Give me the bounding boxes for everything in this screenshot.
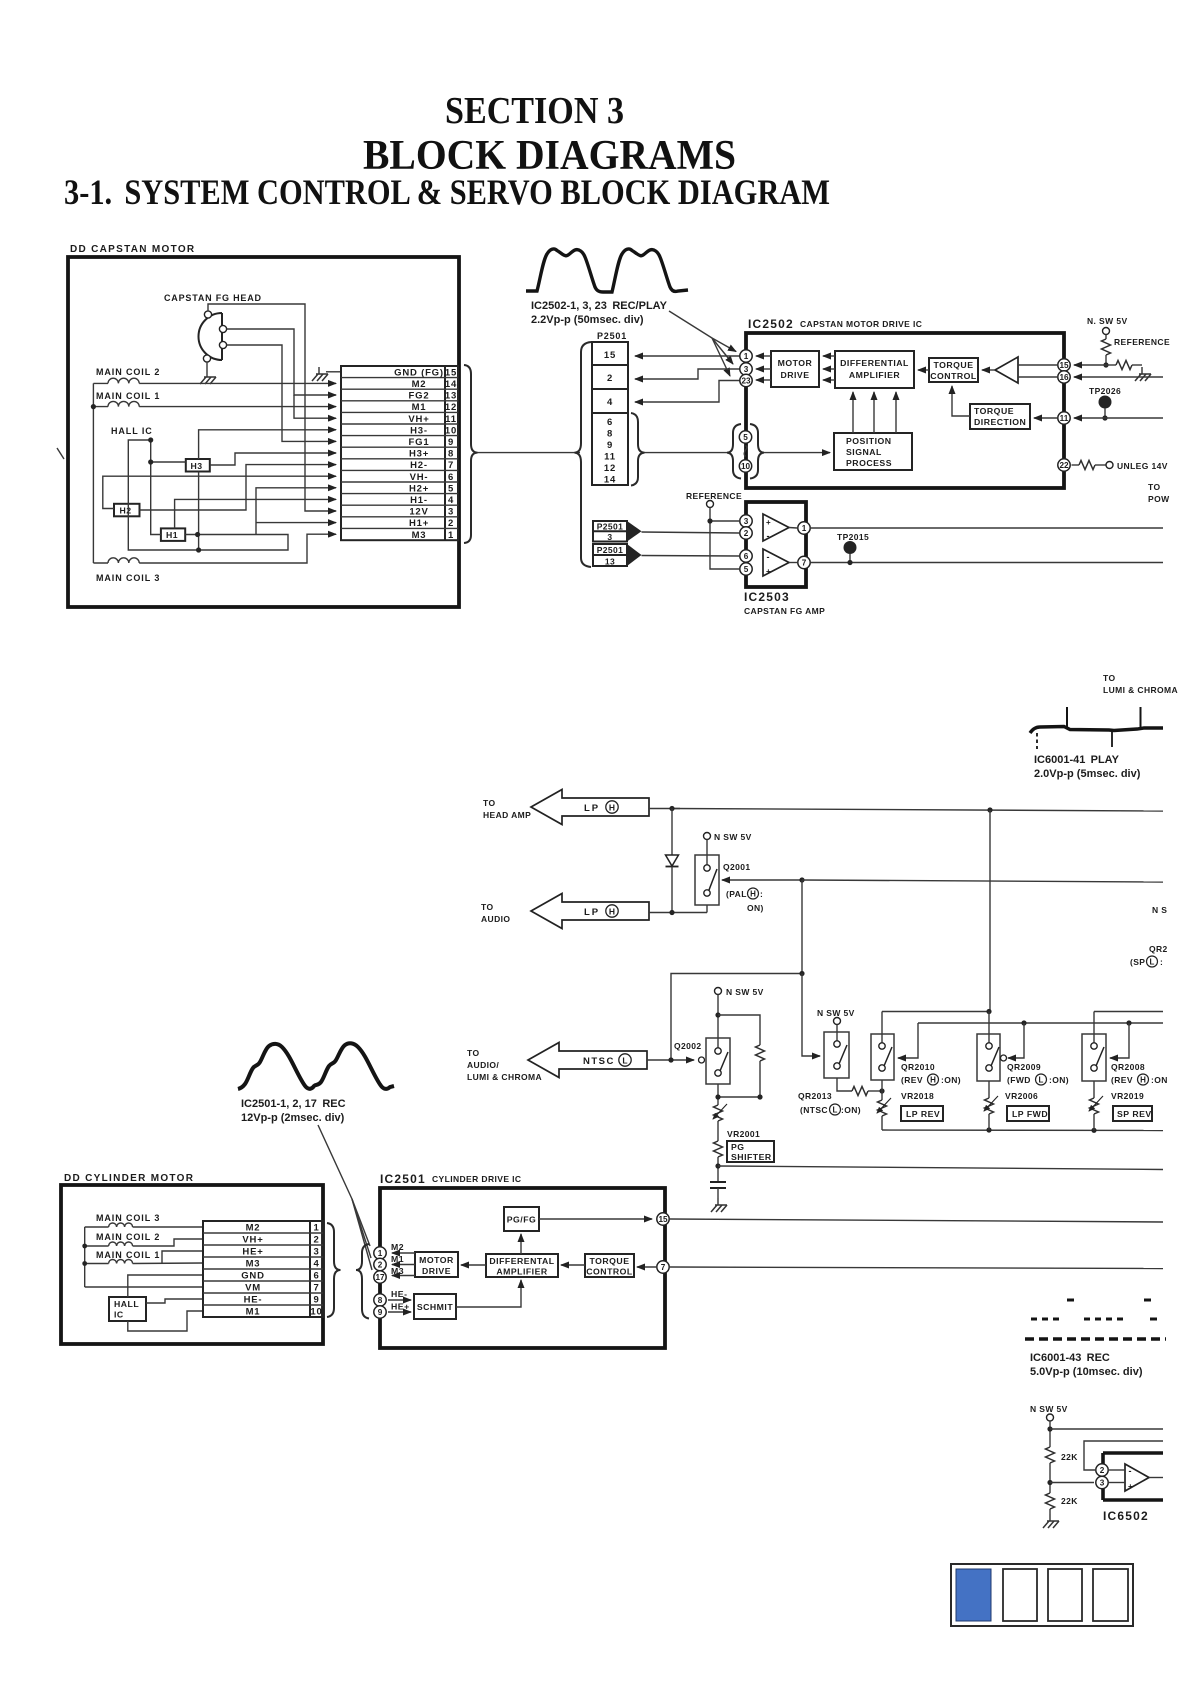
svg-text:VH+: VH+ [408,414,429,425]
svg-text:3: 3 [744,365,749,374]
svg-text:12: 12 [445,402,457,413]
svg-text:+: + [766,567,771,576]
wire pin 15 out [670,1219,1163,1222]
wire QR2010/QR2009 top bus [882,1011,989,1013]
signal arrow TO HEAD AMP [483,790,649,825]
svg-text:-: - [1129,1466,1132,1476]
wire Q2001 branch down-left [671,880,802,1060]
wire QR2008 top bus [1094,1011,1163,1013]
wire pin 11 to torque direction [1034,417,1057,419]
connector table DD capstan motor [341,366,458,541]
wires pins to amplifier [1109,1469,1125,1471]
block DIFFERENTIAL AMPLIFIER [835,351,914,388]
pin 6 IC2503 [740,550,752,562]
adjust label LP REV [901,1106,943,1121]
svg-text:3: 3 [448,507,454,518]
svg-text:Q2001: Q2001 [723,862,751,872]
svg-text:IC2501: IC2501 [380,1172,426,1186]
svg-text:VM: VM [245,1283,261,1294]
wires motor drive outputs to pins 1,3,23 [756,355,771,357]
svg-text:MOTOR: MOTOR [419,1255,454,1265]
wire head-amp bus [672,809,1163,812]
transistor switch QR2010 [871,1012,894,1081]
svg-text:16: 16 [1059,373,1069,382]
svg-text:H3+: H3+ [409,449,429,460]
svg-text:4: 4 [607,397,613,408]
svg-text:3: 3 [313,1247,319,1258]
amplifier triangle [995,357,1018,383]
svg-text:HE+: HE+ [391,1302,410,1312]
divider resistor 22K lower [1043,1493,1078,1528]
svg-text:M1: M1 [412,402,427,413]
net N SW 5V [704,832,752,842]
bottom bus [882,1129,1163,1132]
svg-text:AUDIO/: AUDIO/ [467,1060,499,1070]
svg-text:5: 5 [743,433,748,442]
svg-text:2: 2 [607,373,613,384]
wire branch to VH+ pin [294,395,336,418]
svg-text::: : [1160,957,1163,967]
svg-text:11: 11 [445,414,457,425]
svg-text:FG1: FG1 [409,437,430,448]
wire NTSC to Q2002 [647,1059,694,1061]
wire H1 top pin to H1- pin [175,499,336,528]
block MOTOR DRIVE [771,351,819,387]
svg-text:1: 1 [744,352,749,361]
svg-text:TO: TO [481,902,493,912]
svg-text:15: 15 [445,367,457,378]
svg-text:TP2026: TP2026 [1089,386,1121,396]
wire torque control to differential amplifier [918,369,929,371]
svg-text:HE+: HE+ [242,1247,263,1258]
svg-text:2.0Vp-p (5msec. div): 2.0Vp-p (5msec. div) [1034,768,1141,780]
svg-text:DRIVE: DRIVE [422,1266,451,1276]
svg-text:H: H [609,906,615,916]
svg-text:IC6001-41 PLAY: IC6001-41 PLAY [1034,754,1120,766]
main coil 3 [85,1213,161,1227]
svg-text:DD CAPSTAN MOTOR: DD CAPSTAN MOTOR [70,244,195,255]
svg-text:H: H [930,1076,936,1085]
svg-text:MAIN COIL 2: MAIN COIL 2 [96,1232,160,1242]
block TORQUE CONTROL [929,358,978,382]
svg-text:IC2502-1, 3, 23 REC/PLAY: IC2502-1, 3, 23 REC/PLAY [531,300,668,312]
wire hall bus riser [151,440,161,535]
wire to feedback bus [1050,1428,1163,1430]
svg-text:VR2018: VR2018 [901,1091,934,1101]
wire FG head terminal 2 to FG2 pin [227,329,337,395]
svg-text:H2: H2 [120,506,132,516]
svg-text:M2: M2 [412,379,427,390]
wire PG/FG to pin 15 [539,1218,652,1220]
svg-text:REFERENCE: REFERENCE [1114,337,1170,347]
svg-text:LP REV: LP REV [906,1109,940,1119]
svg-text:MAIN COIL 2: MAIN COIL 2 [96,367,160,377]
svg-text:MAIN COIL 1: MAIN COIL 1 [96,1250,160,1260]
svg-text:UNLEG 14V: UNLEG 14V [1117,461,1168,471]
svg-text:(NTSC: (NTSC [800,1105,828,1115]
oscilloscope waveform IC2502 REC/PLAY [526,249,688,292]
net N SW 5V [1030,1404,1068,1421]
svg-text:DIFFERENTAL: DIFFERENTAL [489,1256,554,1266]
adjust label SP REV [1113,1106,1152,1121]
wire control into Q2001 [722,879,802,881]
brace left of P2501 [575,342,592,567]
main coil 1 [93,391,160,407]
svg-text:VH-: VH- [410,472,429,483]
svg-text:11: 11 [1060,414,1069,423]
wire vertical to QR bank [989,810,991,1012]
wire H3 top pin to H3- pin [199,430,336,459]
wire pin 11 [1074,417,1163,419]
svg-text:M3: M3 [391,1266,404,1276]
pin 7 IC2503 [798,556,810,568]
net N SW 5V at QR2013 [817,1008,855,1044]
svg-text:11: 11 [604,452,616,463]
svg-text:10: 10 [741,462,751,471]
test point TP2015 [837,532,869,565]
svg-text:CONTROL: CONTROL [586,1267,633,1277]
main coil 1 [85,1250,161,1264]
wire hall bus to H3 left pin [151,461,186,463]
svg-text:LP FWD: LP FWD [1012,1109,1048,1119]
wire pin 7 out [670,1267,1163,1269]
svg-text:POW: POW [1148,494,1170,504]
svg-text:12V: 12V [409,507,428,518]
oscilloscope waveform IC6001-41 PLAY [1030,707,1163,749]
hall IC block [109,1297,146,1321]
wire branch to HE+ [162,1251,203,1264]
pin 10 IC2502 [739,460,751,472]
svg-text:6: 6 [313,1271,319,1282]
svg-text:GND (FG): GND (FG) [394,367,444,378]
svg-text::ON: :ON [1151,1075,1168,1085]
svg-text:P2501: P2501 [597,331,627,341]
svg-text:QR2009: QR2009 [1007,1062,1041,1072]
svg-text:LUMI & CHROMA: LUMI & CHROMA [467,1072,542,1082]
wire into pin 15 [1074,364,1106,366]
svg-text:22K: 22K [1061,1496,1078,1506]
pointer lines to IC2501 pins [318,1125,372,1270]
wire reference to op-amp + inputs [710,508,739,570]
block TORQUE DIRECTION [970,404,1030,429]
svg-text:HALL: HALL [114,1299,139,1309]
svg-text:MOTOR: MOTOR [778,358,813,368]
svg-text:PROCESS: PROCESS [846,458,892,468]
pin 1 IC2501 [374,1247,386,1259]
svg-text:L: L [1039,1076,1044,1085]
svg-text:15: 15 [604,350,616,361]
pin 22 IC2502 [1058,459,1070,471]
svg-text:AUDIO: AUDIO [481,914,510,924]
svg-text:3: 3 [744,517,749,526]
svg-text:TO: TO [467,1048,479,1058]
svg-text::ON): :ON) [941,1075,961,1085]
svg-text:SHIFTER: SHIFTER [731,1152,772,1162]
transistor switch QR2013 [824,1032,849,1078]
svg-text:QR2013: QR2013 [798,1091,832,1101]
main coil 2 [93,367,160,383]
transistor switch QR2008 [1082,1012,1106,1082]
svg-text:9: 9 [607,440,613,451]
svg-text:N SW 5V: N SW 5V [726,987,764,997]
svg-text:P2501: P2501 [597,522,624,532]
wire control into QR2009 [1001,1023,1025,1061]
svg-text:8: 8 [607,429,613,440]
svg-text:LUMI & CHROMA: LUMI & CHROMA [1103,685,1178,695]
svg-text:7: 7 [661,1263,666,1272]
pin 8 IC2501 [374,1294,386,1306]
transistor switch QR2009 [977,1012,1000,1082]
wire main coil 3 to M3 pin [139,534,336,563]
svg-text:7: 7 [802,559,807,568]
svg-text:6: 6 [448,472,454,483]
wire P2501 group to pin5-10 brace [645,452,728,454]
pin 1 IC2502 [740,350,752,362]
wire arrow to bus [649,808,680,810]
hall IC bus frame [128,440,288,550]
nav square 2 [1003,1569,1037,1621]
svg-text:+: + [766,518,771,527]
svg-text:2: 2 [744,529,749,538]
svg-text:TO: TO [1103,673,1115,683]
svg-text:DIFFERENTIAL: DIFFERENTIAL [840,358,909,368]
net N SW 5V [715,987,764,997]
svg-text:TO: TO [1148,482,1160,492]
svg-text:4: 4 [313,1259,319,1270]
svg-text:5: 5 [744,565,749,574]
svg-text:H2+: H2+ [409,483,429,494]
svg-text:DRIVE: DRIVE [780,370,809,380]
svg-text:IC2502: IC2502 [748,317,794,331]
wires motor drive to pins 1,2,17 [392,1252,415,1254]
resistor below VR2001 [714,1141,723,1182]
svg-text:PG: PG [731,1142,745,1152]
wire P2501-2 from IC2502 pin 3 [635,369,740,379]
op-amp A [763,514,797,541]
amplifier triangle [1125,1464,1149,1491]
pin 15 IC2501 [657,1213,669,1225]
svg-text:N SW 5V: N SW 5V [1030,1404,1068,1414]
svg-text:ON): ON) [747,903,764,913]
svg-text:H3-: H3- [410,425,428,436]
svg-text:DIRECTION: DIRECTION [974,417,1026,427]
connector P2501 [592,331,628,486]
svg-text:N SW 5V: N SW 5V [714,832,752,842]
pin 5 IC2502 [739,431,751,443]
svg-text:QR2010: QR2010 [901,1062,935,1072]
svg-text:8: 8 [378,1296,383,1305]
svg-text:NTSC: NTSC [583,1056,615,1067]
svg-text:H2-: H2- [410,460,428,471]
wire main coil 2 to M2 pin [139,382,336,384]
wire control into QR2010 [898,1023,918,1058]
svg-text:9: 9 [313,1295,319,1306]
svg-text:12: 12 [604,463,616,474]
svg-text:HALL IC: HALL IC [111,426,153,436]
signal arrow TO AUDIO [481,894,649,929]
wire main coil 1 to M1 pin [139,406,336,408]
svg-text:VR2001: VR2001 [727,1129,760,1139]
svg-text:POSITION: POSITION [846,436,892,446]
ground [711,1198,727,1212]
junction hall bus [148,437,153,442]
wire P2501-13 to pin 6 [642,555,740,558]
wire hall right to HE- [146,1299,203,1303]
svg-text:3: 3 [607,532,612,542]
net REFERENCE [686,491,742,508]
main coil 3 [93,558,160,583]
pin 1 IC2503 [798,522,810,534]
svg-text:CAPSTAN FG AMP: CAPSTAN FG AMP [744,606,825,616]
resistor to reference [1102,335,1111,366]
svg-text:12Vp-p (2msec. div): 12Vp-p (2msec. div) [241,1112,345,1124]
wire FG head terminal 3 to FG1 pin [227,345,337,441]
variable resistor VR2019 [1089,1081,1103,1130]
block POSITION SIGNAL PROCESS [834,433,912,470]
pin 17 IC2501 [374,1271,386,1283]
pin 3 IC6502 [1096,1476,1108,1488]
pull-up resistor branch [715,1012,764,1097]
svg-text:TORQUE: TORQUE [933,360,973,370]
svg-text:22K: 22K [1061,1452,1078,1462]
wire pin 1 output [811,527,1163,529]
wire down to QR2013 [802,974,820,1057]
svg-text:DD CYLINDER MOTOR: DD CYLINDER MOTOR [64,1173,194,1184]
junction coil common [91,404,96,409]
wire pin 2 feedback loop [1084,1441,1163,1470]
brace right of P2501 group pins [631,413,645,486]
svg-text:2: 2 [313,1235,319,1246]
pin 11 IC2502 [1058,412,1070,424]
op-amp B [763,549,797,576]
svg-text:M2: M2 [246,1223,261,1234]
svg-text:HE-: HE- [244,1295,263,1306]
svg-text:QR2008: QR2008 [1111,1062,1145,1072]
svg-text:(FWD: (FWD [1007,1075,1031,1085]
svg-text:LP: LP [584,907,600,918]
hall sensor H1 [161,528,185,541]
svg-text:PG/FG: PG/FG [507,1215,537,1225]
svg-text:VR2006: VR2006 [1005,1091,1038,1101]
svg-text:1: 1 [378,1249,383,1258]
oscilloscope waveform IC6001-43 REC (dashed) [1025,1300,1166,1339]
svg-text:H: H [609,802,615,812]
svg-text:M1: M1 [391,1254,404,1264]
connector P2501-13 [593,544,642,567]
divider resistor 22K upper [1046,1421,1079,1493]
svg-text:14: 14 [604,475,616,486]
svg-text::: : [760,889,763,899]
DD CAPSTAN MOTOR enclosure [68,257,459,607]
svg-text:4: 4 [448,495,454,506]
wire coil 1 to M3 [133,1262,203,1265]
wire amplifier to torque control [982,369,995,371]
svg-text:TO: TO [483,798,495,808]
svg-text:MAIN COIL 1: MAIN COIL 1 [96,391,160,401]
wire hall top to GND [128,1275,203,1297]
hall sensor H2 [114,504,140,517]
svg-text:TORQUE: TORQUE [974,406,1014,416]
svg-text:TP2015: TP2015 [837,532,869,542]
block MOTOR DRIVE [415,1252,458,1277]
wire H3 right pin to H3+ pin [210,453,336,465]
svg-text:SCHMIT: SCHMIT [417,1302,453,1312]
wire Q2002 emitter junction [715,1084,762,1105]
svg-text:VH+: VH+ [242,1235,263,1246]
block PG/FG [504,1207,539,1231]
svg-text:AMPLIFIER: AMPLIFIER [496,1267,548,1277]
wire torque direction to torque control [952,386,970,416]
svg-text:6: 6 [607,417,613,428]
svg-text:15: 15 [658,1215,668,1224]
svg-text:H: H [1140,1076,1146,1085]
connector table DD cylinder motor [203,1221,323,1318]
wire H1+ pin [256,522,336,524]
wire torque control to diff amp [561,1264,585,1266]
svg-text:2: 2 [1100,1466,1105,1475]
svg-text:L: L [833,1106,838,1115]
op-amp IC6502 [1103,1453,1163,1523]
svg-text:CAPSTAN FG HEAD: CAPSTAN FG HEAD [164,293,262,303]
svg-text:+: + [1128,1482,1133,1491]
main coil 2 [85,1232,161,1246]
svg-text:AMPLIFIER: AMPLIFIER [849,370,901,380]
transistor switch Q2001 [695,840,719,906]
svg-text:CAPSTAN MOTOR DRIVE IC: CAPSTAN MOTOR DRIVE IC [800,319,922,329]
pin 15 IC2502 [1058,359,1070,371]
svg-text:-: - [767,552,770,562]
capacitor [710,1182,726,1198]
block DIFFERENTAL AMPLIFIER [486,1254,558,1277]
svg-text:SECTION 3: SECTION 3 [445,90,624,132]
pin 23 IC2502 [740,374,752,386]
wires pins 8,9 to schmit [388,1299,411,1301]
svg-text:N SW 5V: N SW 5V [817,1008,855,1018]
coil common bus [82,1227,87,1287]
wire junction to pin 3 [1050,1482,1094,1484]
svg-text:M3: M3 [246,1259,261,1270]
variable resistor VR2006 [984,1081,998,1130]
diode [666,809,679,914]
wire H2 right pin to H2- pin [140,465,337,510]
svg-text:GND: GND [241,1271,265,1282]
svg-text:N. SW 5V: N. SW 5V [1087,316,1128,326]
ground at GND(FG) pin [312,367,341,381]
wire diff amp to PG/FG [520,1234,522,1254]
wire pin 16 [1074,376,1163,378]
resistor at pin 22 to UNLEG 14V [1072,461,1168,472]
pin 3 IC2502 [740,363,752,375]
svg-text:3: 3 [1100,1479,1105,1488]
wire coil 3 to M2 [133,1226,203,1228]
wire amplifier output [1149,1477,1163,1479]
brace pair at pins 5,10 [727,424,741,479]
svg-text:H: H [750,890,756,899]
svg-text:H1-: H1- [410,495,428,506]
svg-text:IC6502: IC6502 [1103,1509,1149,1523]
wires position signal process to differential amplifier [852,392,854,433]
svg-text:TORQUE: TORQUE [589,1256,629,1266]
svg-text:1: 1 [313,1223,319,1234]
svg-text:IC2501-1, 2, 17 REC: IC2501-1, 2, 17 REC [241,1098,346,1110]
note (PAL H : ON) [726,888,764,913]
block PG SHIFTER [727,1141,774,1162]
svg-text:VR2019: VR2019 [1111,1091,1144,1101]
svg-text:IC2503: IC2503 [744,590,790,604]
svg-text:SP REV: SP REV [1117,1109,1152,1119]
svg-text:P2501: P2501 [597,545,624,555]
svg-text:M3: M3 [412,530,427,541]
